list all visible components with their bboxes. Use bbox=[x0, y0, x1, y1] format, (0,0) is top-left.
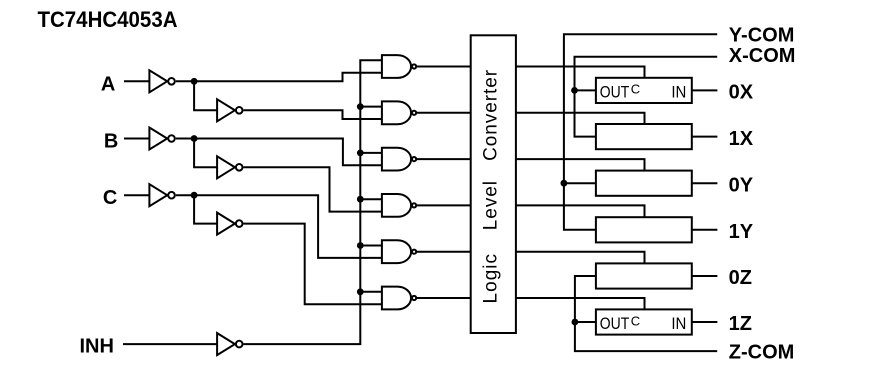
wire Cbar to inverter C-2 bbox=[194, 195, 217, 223]
wire G1 output bbox=[416, 66, 471, 68]
wire control 0X bbox=[516, 67, 645, 78]
wire 0Y OUT tap bbox=[564, 182, 596, 184]
node bus junction G5 bbox=[357, 242, 364, 249]
wire A input bbox=[124, 80, 149, 82]
wire INH input bbox=[123, 343, 217, 345]
inverter C-2 bbox=[217, 213, 242, 235]
wire 0X IN lead bbox=[692, 89, 718, 91]
wire Abar to gate G1 bbox=[176, 73, 382, 82]
wire control 1Z bbox=[516, 298, 645, 309]
svg-text:TC74HC4053A: TC74HC4053A bbox=[38, 7, 178, 32]
svg-text:INH: INH bbox=[80, 335, 114, 357]
wire X-COM net bbox=[575, 57, 718, 137]
block logic level converter U1 bbox=[471, 35, 516, 333]
NAND gate G2 bbox=[382, 101, 416, 124]
svg-text:1Y: 1Y bbox=[729, 221, 754, 243]
node Z-COM junction bbox=[572, 319, 579, 326]
inverter INH-1 bbox=[217, 333, 242, 355]
svg-text:1X: 1X bbox=[729, 128, 754, 150]
switch 1Y SW4 bbox=[596, 217, 692, 242]
node Cbar junction bbox=[191, 192, 198, 199]
wire Z-COM net bbox=[575, 276, 717, 351]
svg-text:C: C bbox=[631, 313, 640, 328]
wire 1X IN lead bbox=[692, 136, 718, 138]
svg-text:IN: IN bbox=[671, 82, 686, 101]
svg-text:X-COM: X-COM bbox=[729, 45, 796, 67]
wire 1Z IN lead bbox=[692, 321, 718, 323]
wire bus tap to gate G2 bbox=[360, 106, 382, 108]
node bus junction G4 bbox=[357, 196, 364, 203]
wire INHbar bus bbox=[244, 60, 382, 344]
node Abar junction bbox=[191, 78, 198, 85]
wire bus tap to gate G6 bbox=[360, 291, 382, 293]
wire G3 output bbox=[416, 158, 471, 160]
svg-text:0Y: 0Y bbox=[729, 174, 754, 196]
svg-text:Logic: Logic bbox=[481, 254, 502, 304]
wire control 0Y bbox=[516, 159, 645, 171]
wire Abar to inverter A-2 bbox=[194, 81, 217, 110]
svg-text:1Z: 1Z bbox=[729, 313, 752, 335]
svg-text:A: A bbox=[101, 73, 115, 95]
inverter B-1 bbox=[149, 128, 174, 150]
svg-text:OUT: OUT bbox=[600, 82, 630, 101]
switch 1Z SW6 bbox=[596, 309, 692, 334]
node bus junction G3 bbox=[357, 150, 364, 157]
wire G6 output bbox=[416, 297, 471, 299]
switch 0Z SW5 bbox=[596, 263, 692, 288]
NAND gate G1 bbox=[382, 55, 416, 78]
svg-text:C: C bbox=[103, 187, 117, 209]
switch 1X SW2 bbox=[596, 124, 692, 149]
wire G5 output bbox=[416, 251, 471, 253]
svg-text:Z-COM: Z-COM bbox=[729, 341, 795, 363]
node bus junction G2 bbox=[357, 103, 364, 110]
wire C input bbox=[124, 194, 149, 196]
wire bus tap to gate G4 bbox=[360, 198, 382, 200]
inverter B-2 bbox=[217, 156, 242, 178]
inverter A-1 bbox=[149, 70, 174, 92]
wire B input bbox=[124, 138, 149, 140]
wire G4 output bbox=[416, 204, 471, 206]
node bus junction G6 bbox=[357, 288, 364, 295]
inverter A-2 bbox=[217, 99, 242, 121]
svg-text:C: C bbox=[631, 82, 640, 97]
NAND gate G3 bbox=[382, 148, 416, 171]
wire 1Z OUT tap bbox=[575, 321, 596, 323]
switch 0X SW1 bbox=[596, 78, 692, 103]
wire bus tap to gate G5 bbox=[360, 245, 382, 247]
node X-COM junction bbox=[571, 87, 578, 94]
wire G2 output bbox=[416, 112, 471, 114]
wire control 0Z bbox=[516, 252, 645, 264]
wire Bbar to gate G3 bbox=[176, 139, 382, 166]
wire Bbar to inverter B-2 bbox=[194, 139, 217, 168]
svg-text:0Z: 0Z bbox=[729, 267, 752, 289]
wire 0Y IN lead bbox=[692, 182, 718, 184]
node Y-COM junction bbox=[561, 180, 568, 187]
wire Cbar to gate G5 bbox=[176, 195, 382, 258]
wire A to gate G2 bbox=[244, 110, 382, 119]
svg-text:Y-COM: Y-COM bbox=[729, 25, 795, 47]
node Bbar junction bbox=[191, 135, 198, 142]
inverter C-1 bbox=[149, 184, 174, 206]
wire 0X OUT tap bbox=[575, 89, 596, 91]
NAND gate G4 bbox=[382, 194, 416, 217]
wire bus tap to gate G3 bbox=[360, 152, 382, 154]
wire control 1Y bbox=[516, 205, 645, 217]
svg-text:Converter: Converter bbox=[481, 69, 502, 161]
switch 0Y SW3 bbox=[596, 171, 692, 196]
wire 0Z IN lead bbox=[692, 275, 718, 277]
wire control 1X bbox=[516, 113, 645, 124]
wire C to gate G6 bbox=[244, 224, 382, 305]
NAND gate G6 bbox=[382, 287, 416, 310]
wire 1Y IN lead bbox=[692, 229, 718, 231]
wire B to gate G4 bbox=[244, 167, 382, 211]
svg-text:OUT: OUT bbox=[600, 314, 630, 333]
svg-text:0X: 0X bbox=[729, 82, 754, 104]
wire Y-COM net bbox=[564, 34, 717, 230]
NAND gate G5 bbox=[382, 240, 416, 263]
svg-text:B: B bbox=[104, 130, 118, 152]
svg-text:Level: Level bbox=[481, 181, 502, 230]
svg-text:IN: IN bbox=[671, 314, 686, 333]
